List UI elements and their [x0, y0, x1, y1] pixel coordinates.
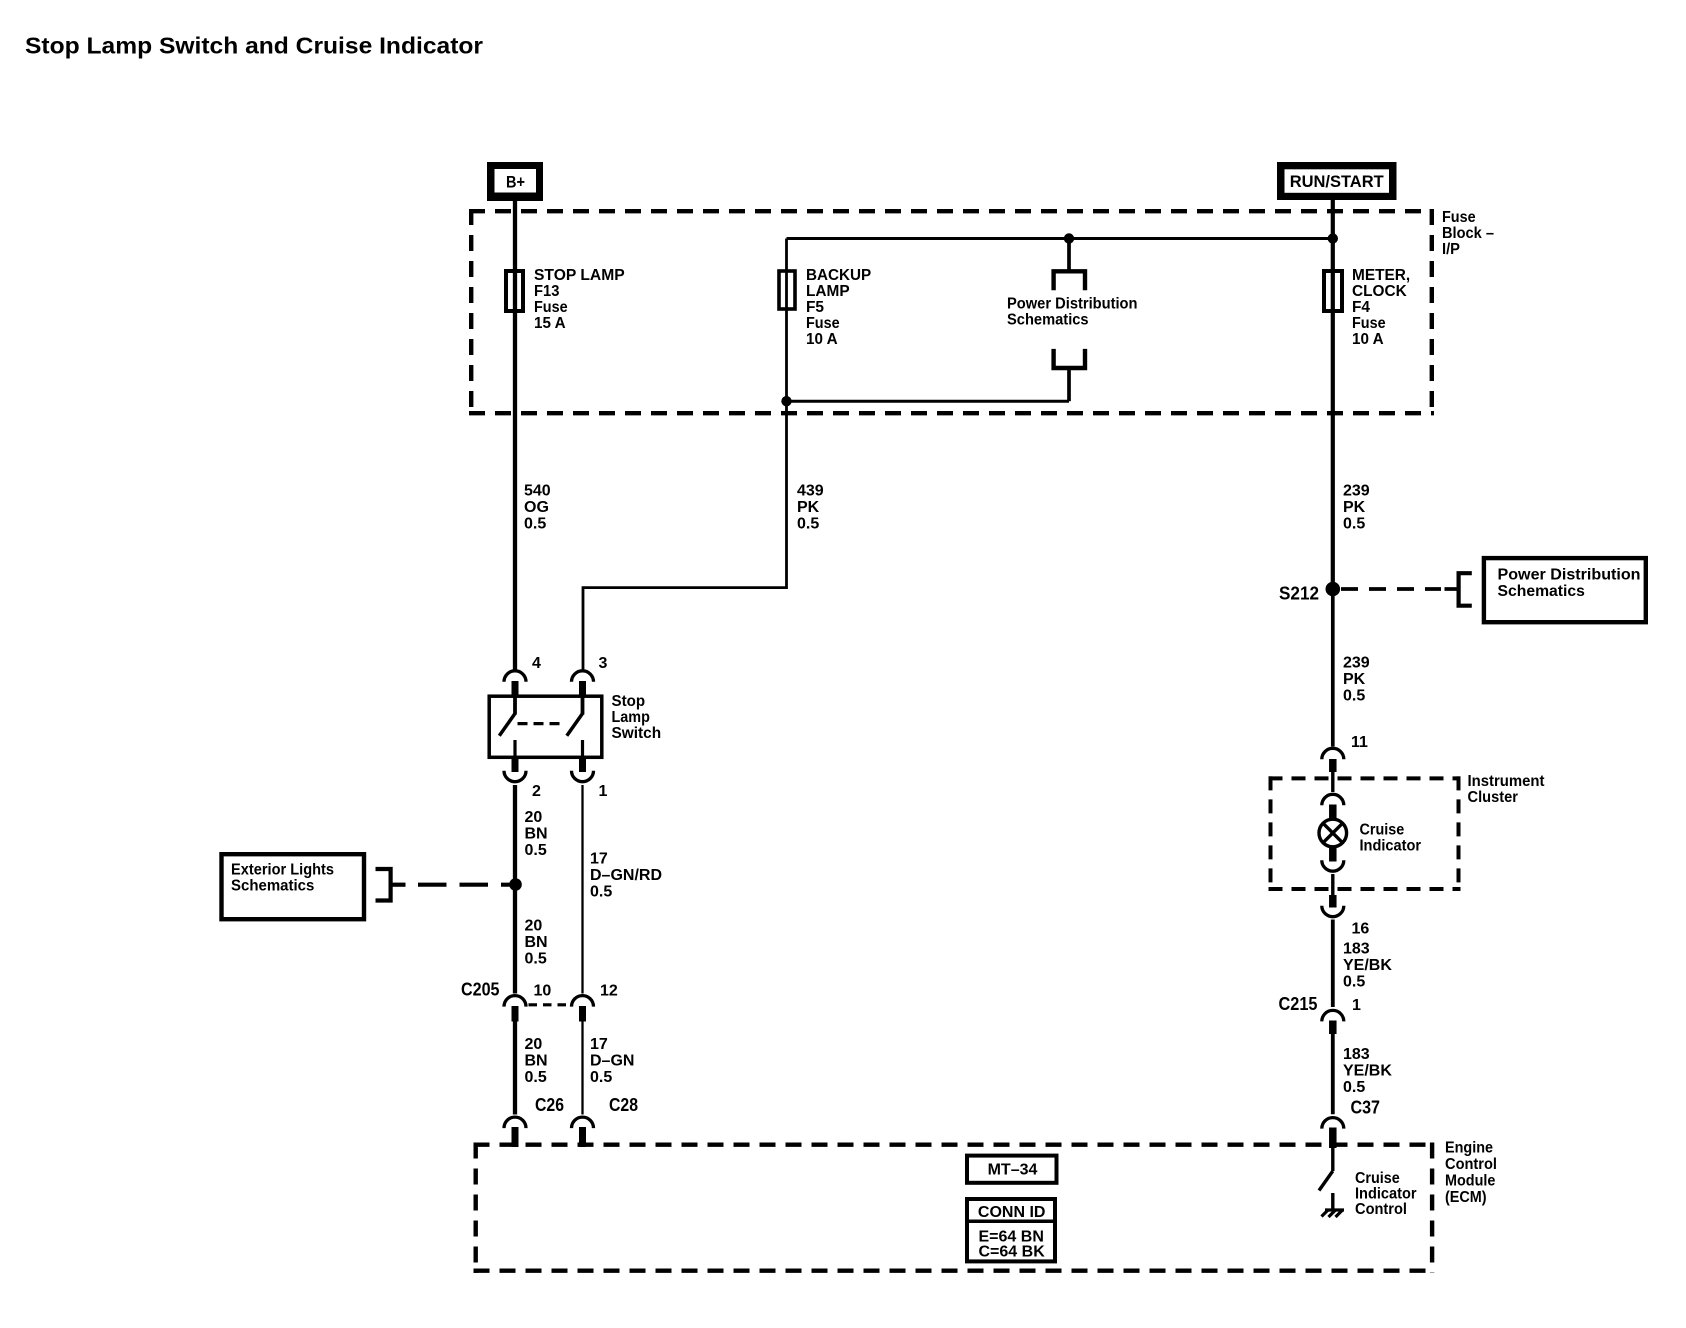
cluster internal connector lower [1322, 860, 1344, 871]
pin 1 stub [579, 758, 586, 772]
svg-text:0.5: 0.5 [1343, 1079, 1365, 1096]
svg-text:F5: F5 [806, 299, 824, 316]
label cruise indicator control [1355, 1170, 1417, 1218]
svg-text:F13: F13 [534, 283, 559, 300]
connector C205 dashed body [529, 1003, 570, 1006]
dashed reference line from S212 [1341, 587, 1441, 591]
svg-text:0.5: 0.5 [590, 1069, 612, 1086]
svg-text:YE/BK: YE/BK [1343, 957, 1392, 974]
cruise indicator lamp [1319, 819, 1347, 847]
cruise indicator control switch wire [1331, 1148, 1334, 1171]
svg-text:0.5: 0.5 [524, 516, 546, 533]
svg-text:(ECM): (ECM) [1445, 1189, 1487, 1206]
label Fuse Block I/P [1442, 209, 1494, 258]
wire pin 2 to C205 pin 10 [513, 785, 517, 994]
fuse F13 [506, 271, 523, 311]
svg-text:Stop Lamp Switch and Cruise In: Stop Lamp Switch and Cruise Indicator [25, 33, 483, 59]
svg-text:10 A: 10 A [1352, 331, 1384, 348]
C205 pin 12 stub [579, 1006, 586, 1022]
stop lamp switch box [489, 696, 602, 757]
connector C205 pin 10 [504, 996, 526, 1007]
fuse F4 [1324, 271, 1342, 311]
label wire 183 YE/BK 0.5 upper [1343, 941, 1392, 991]
pin 11 connector [1322, 748, 1344, 759]
svg-text:CONN ID: CONN ID [978, 1204, 1046, 1221]
svg-text:0.5: 0.5 [797, 516, 819, 533]
wire C205 to C28 [581, 1022, 583, 1115]
pin 3 stub [579, 681, 586, 696]
wire backup lamp vertical with jog to pin 3 [583, 239, 787, 671]
wire backup lamp feed horizontal [787, 237, 1333, 240]
svg-text:BN: BN [525, 934, 548, 951]
svg-text:Lamp: Lamp [612, 709, 651, 726]
svg-text:YE/BK: YE/BK [1343, 1063, 1392, 1080]
wire RUN/START to S212 [1331, 199, 1335, 589]
svg-text:20: 20 [525, 918, 543, 935]
svg-text:S212: S212 [1279, 584, 1319, 604]
svg-text:3: 3 [599, 655, 608, 672]
svg-text:0.5: 0.5 [1343, 516, 1365, 533]
junction dot at power distribution tap [1064, 233, 1074, 243]
svg-text:Indicator: Indicator [1355, 1186, 1417, 1203]
svg-text:11: 11 [1351, 734, 1368, 751]
pin 1 connector [572, 771, 594, 782]
switch right contact lead [581, 695, 585, 715]
connector C26 [504, 1117, 526, 1128]
svg-text:Cruise: Cruise [1360, 822, 1405, 839]
svg-text:C26: C26 [535, 1095, 564, 1115]
svg-text:Control: Control [1445, 1156, 1497, 1173]
wire from power distribution symbol bottom [1067, 368, 1071, 401]
wire S212 to instrument cluster pin 11 [1331, 589, 1335, 747]
label wire 239 PK 0.5 lower [1343, 655, 1370, 705]
wire C215 to C37 [1331, 1034, 1335, 1114]
svg-text:Instrument: Instrument [1468, 773, 1546, 790]
svg-text:0.5: 0.5 [1343, 688, 1365, 705]
splice S212 [1326, 582, 1341, 597]
svg-text:439: 439 [797, 483, 824, 500]
svg-text:C37: C37 [1351, 1098, 1381, 1118]
svg-text:PK: PK [797, 499, 820, 516]
connector C205 pin 12 [572, 996, 594, 1007]
pin 2 connector [504, 771, 526, 782]
svg-text:Fuse: Fuse [1442, 209, 1476, 226]
power distribution off-page symbol bottom bracket [1054, 349, 1085, 368]
svg-text:Fuse: Fuse [1352, 315, 1386, 332]
svg-text:OG: OG [524, 499, 549, 516]
pin 3 connector [572, 671, 594, 682]
connector C28 [572, 1117, 594, 1128]
svg-text:BN: BN [525, 826, 548, 843]
svg-text:17: 17 [590, 851, 608, 868]
MT-34 box [967, 1156, 1057, 1183]
bracket from exterior lights box [376, 869, 391, 901]
svg-text:CLOCK: CLOCK [1352, 283, 1407, 300]
label wire 239 PK 0.5 upper [1343, 483, 1370, 533]
svg-text:Switch: Switch [612, 725, 662, 742]
wire out of cluster [1331, 874, 1334, 895]
dashed reference line to splice [418, 883, 510, 887]
svg-text:D–GN: D–GN [590, 1053, 634, 1070]
bracket to power distribution schematics box [1459, 573, 1472, 606]
power distribution off-page symbol top bracket [1054, 271, 1085, 290]
svg-text:0.5: 0.5 [590, 884, 612, 901]
CONN ID table [967, 1199, 1055, 1261]
svg-text:Fuse: Fuse [806, 315, 840, 332]
power distribution schematics box [1484, 558, 1646, 622]
C28 stub [579, 1127, 586, 1147]
wire pin 1 to C205 pin 12 [581, 785, 583, 994]
cluster internal connector [1322, 794, 1344, 805]
lamp bottom stub [1329, 847, 1337, 862]
svg-text:Schematics: Schematics [1007, 311, 1089, 328]
svg-text:10 A: 10 A [806, 331, 838, 348]
ground chassis symbol [1322, 1210, 1345, 1218]
svg-text:RUN/START: RUN/START [1290, 173, 1384, 191]
label wire 540 OG 0.5 [524, 483, 551, 533]
node B+ [487, 162, 543, 201]
cruise indicator control lower contact [1331, 1193, 1334, 1210]
svg-text:20: 20 [525, 1036, 543, 1053]
svg-text:183: 183 [1343, 941, 1370, 958]
svg-text:183: 183 [1343, 1046, 1370, 1063]
label wire 17 D-GN 0.5 [590, 1036, 634, 1086]
wire B+ to stop lamp switch pin 4 [513, 199, 517, 671]
pin 11 stub [1329, 759, 1337, 772]
svg-text:Control: Control [1355, 1201, 1407, 1218]
svg-text:Cluster: Cluster [1468, 789, 1518, 806]
svg-text:0.5: 0.5 [525, 842, 547, 859]
svg-text:2: 2 [532, 783, 541, 800]
svg-text:Power Distribution: Power Distribution [1007, 295, 1138, 312]
label power distribution schematics box [1498, 567, 1641, 601]
wire into cluster [1331, 772, 1334, 792]
fuse block I/P dashed box [469, 209, 1434, 415]
C215 stub [1329, 1021, 1337, 1035]
connector C215 [1322, 1010, 1344, 1021]
svg-text:16: 16 [1352, 921, 1370, 938]
C26 stub [512, 1127, 519, 1147]
svg-text:10: 10 [534, 983, 552, 1000]
svg-text:Cruise: Cruise [1355, 1170, 1400, 1187]
fuse F5 [779, 271, 795, 309]
pin 4 stub [512, 681, 519, 696]
label engine control module [1445, 1140, 1497, 1207]
svg-text:Engine: Engine [1445, 1140, 1493, 1157]
label instrument cluster [1468, 773, 1546, 806]
switch coupling dashed line [518, 722, 565, 725]
svg-text:BACKUP: BACKUP [806, 267, 872, 284]
label wire 183 YE/BK 0.5 lower [1343, 1046, 1392, 1096]
svg-text:239: 239 [1343, 483, 1370, 500]
label stop lamp switch [612, 693, 662, 742]
svg-text:239: 239 [1343, 655, 1370, 672]
wire to power distribution symbol top [1067, 239, 1071, 272]
svg-text:BN: BN [525, 1053, 548, 1070]
switch left contact lead [513, 695, 517, 715]
label fuse F5 [806, 267, 872, 348]
junction dot on backup lamp wire [781, 396, 791, 406]
label wire 439 PK 0.5 [797, 483, 824, 533]
svg-text:Power Distribution: Power Distribution [1498, 567, 1641, 584]
svg-text:Schematics: Schematics [231, 878, 314, 895]
svg-text:PK: PK [1343, 499, 1366, 516]
svg-text:Schematics: Schematics [1498, 583, 1585, 600]
switch right blade [567, 714, 583, 736]
svg-text:B+: B+ [506, 173, 525, 192]
svg-text:MT–34: MT–34 [988, 1161, 1038, 1178]
instrument cluster dashed box [1269, 776, 1461, 891]
pin 4 connector [504, 671, 526, 682]
svg-text:C205: C205 [461, 980, 500, 1000]
pin 16 connector [1322, 906, 1344, 917]
lamp top stub [1329, 805, 1337, 820]
cruise indicator control switch blade [1319, 1171, 1333, 1191]
svg-text:4: 4 [532, 655, 541, 672]
C37 stub [1329, 1128, 1337, 1149]
wire cluster to C215 [1331, 920, 1335, 1008]
label exterior lights schematics [231, 862, 334, 895]
pin 16 stub [1329, 895, 1337, 908]
switch left blade [499, 714, 515, 736]
svg-text:C28: C28 [609, 1095, 638, 1115]
label wire 17 D-GN/RD 0.5 [590, 851, 662, 901]
junction dot on 20 BN wire [509, 878, 522, 891]
svg-text:Fuse: Fuse [534, 299, 568, 316]
wire C205 to C26 [513, 1022, 517, 1115]
svg-text:12: 12 [600, 983, 618, 1000]
switch left bottom contact [513, 740, 516, 759]
svg-text:Block –: Block – [1442, 225, 1494, 242]
svg-text:METER,: METER, [1352, 267, 1410, 284]
svg-text:Exterior Lights: Exterior Lights [231, 862, 334, 879]
engine control module dashed box [474, 1143, 1435, 1273]
svg-text:C215: C215 [1279, 994, 1318, 1014]
svg-text:0.5: 0.5 [525, 951, 547, 968]
svg-text:Stop: Stop [612, 693, 646, 710]
svg-text:1: 1 [599, 783, 608, 800]
C205 pin 10 stub [512, 1006, 519, 1022]
svg-text:D–GN/RD: D–GN/RD [590, 867, 662, 884]
svg-text:1: 1 [1352, 997, 1361, 1014]
svg-text:PK: PK [1343, 671, 1366, 688]
connector C37 [1322, 1118, 1344, 1129]
svg-text:Indicator: Indicator [1360, 838, 1422, 855]
label wire 20 BN 0.5 middle [525, 918, 548, 968]
svg-text:F4: F4 [1352, 299, 1370, 316]
label power distribution schematics [1007, 295, 1138, 328]
svg-text:15 A: 15 A [534, 315, 566, 332]
exterior lights schematics box [222, 854, 365, 919]
label wire 20 BN 0.5 lower [525, 1036, 548, 1086]
svg-text:I/P: I/P [1442, 241, 1460, 258]
svg-text:0.5: 0.5 [1343, 974, 1365, 991]
svg-text:C=64 BK: C=64 BK [979, 1244, 1046, 1261]
svg-text:LAMP: LAMP [806, 283, 850, 300]
label fuse F13 [534, 267, 625, 332]
node RUN/START [1277, 162, 1397, 200]
pin 2 stub [512, 758, 519, 772]
svg-text:0.5: 0.5 [525, 1069, 547, 1086]
svg-text:17: 17 [590, 1036, 608, 1053]
label fuse F4 [1352, 267, 1410, 348]
svg-text:540: 540 [524, 483, 551, 500]
svg-text:Module: Module [1445, 1173, 1495, 1190]
switch right bottom contact [581, 740, 584, 759]
svg-text:20: 20 [525, 809, 543, 826]
label cruise indicator [1360, 822, 1422, 855]
junction dot at run/start wire [1328, 233, 1338, 243]
wire return to backup lamp feed [787, 400, 1070, 403]
label wire 20 BN 0.5 upper [525, 809, 548, 859]
svg-text:STOP LAMP: STOP LAMP [534, 267, 625, 284]
